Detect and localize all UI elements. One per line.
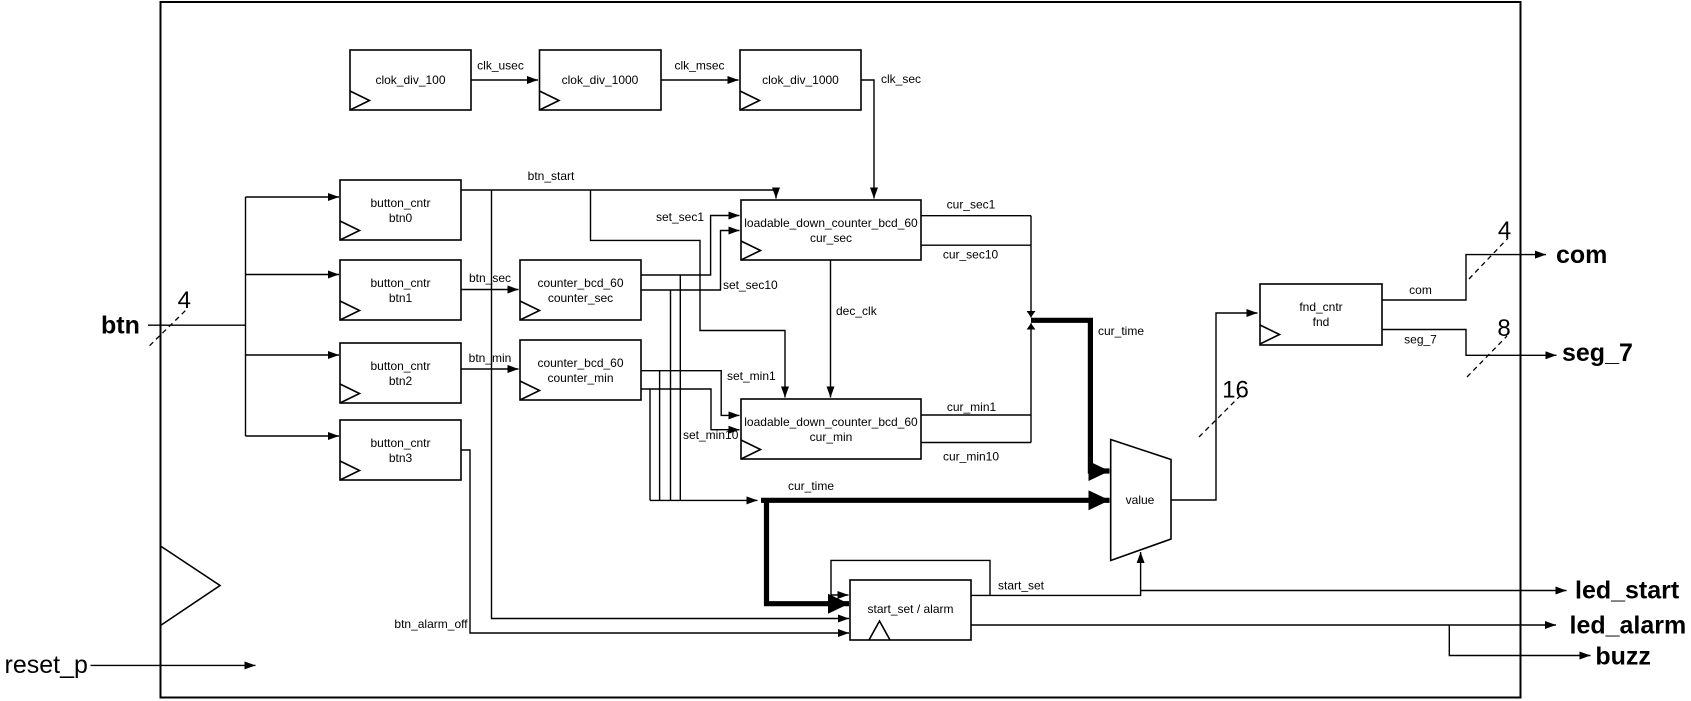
wire set_sec1 branch down	[679, 275, 681, 500]
thick wire cur_time upper	[1031, 320, 1110, 471]
svg-text:4: 4	[1498, 217, 1511, 244]
wire clk_sec	[861, 80, 874, 199]
svg-text:btn0: btn0	[389, 211, 413, 225]
block loadable_down_counter_bcd_60 cur_min	[741, 399, 921, 459]
svg-text:led_alarm: led_alarm	[1570, 612, 1687, 640]
svg-text:start_set: start_set	[998, 579, 1045, 593]
wire value to fnd_cntr	[1171, 313, 1258, 500]
label fnd_cntr fnd	[1299, 300, 1342, 329]
svg-text:btn1: btn1	[389, 291, 413, 305]
svg-text:btn_sec: btn_sec	[469, 271, 511, 285]
wire set_sec1	[641, 216, 740, 276]
svg-text:button_cntr: button_cntr	[370, 359, 430, 373]
svg-text:loadable_down_counter_bcd_60: loadable_down_counter_bcd_60	[744, 216, 918, 230]
wire dec_clk	[830, 260, 832, 398]
block counter_bcd_60 counter_sec	[520, 260, 641, 320]
wire seg_7	[1382, 330, 1557, 356]
svg-text:cur_time: cur_time	[788, 479, 834, 493]
svg-text:value: value	[1126, 493, 1155, 507]
wire cur_min1	[921, 414, 1031, 416]
svg-text:btn_start: btn_start	[528, 169, 575, 183]
label loadable_down_counter_bcd_60 cur_sec	[744, 216, 918, 245]
wire buzz	[1449, 625, 1590, 656]
wire btn to btn3	[246, 435, 340, 437]
block fnd_cntr fnd	[1260, 284, 1382, 345]
wire btn to btn0	[246, 196, 340, 198]
svg-text:btn: btn	[101, 312, 140, 340]
svg-text:buzz: buzz	[1595, 643, 1651, 671]
wire set bus to cur_time	[650, 499, 758, 501]
label loadable_down_counter_bcd_60 cur_min	[744, 415, 918, 444]
block clok_div_1000 second	[740, 50, 861, 110]
svg-text:button_cntr: button_cntr	[370, 276, 430, 290]
svg-text:reset_p: reset_p	[5, 651, 88, 679]
label button_cntr btn3	[370, 436, 430, 465]
svg-text:seg_7: seg_7	[1562, 339, 1633, 367]
svg-text:counter_bcd_60: counter_bcd_60	[537, 276, 623, 290]
svg-text:fnd: fnd	[1313, 315, 1330, 329]
bus slash com 4	[1469, 238, 1508, 279]
svg-text:btn_alarm_off: btn_alarm_off	[394, 617, 468, 631]
wire com	[1382, 255, 1546, 300]
wire btn to btn1	[246, 274, 340, 276]
block counter_bcd_60 counter_min	[520, 340, 641, 400]
label button_cntr btn0	[370, 196, 430, 225]
wire clk_usec	[471, 79, 538, 81]
wire cur_min junction vertical	[1030, 323, 1032, 442]
wire cur_min10	[921, 442, 1031, 444]
wire cur_sec10	[921, 244, 1031, 246]
mux value	[1111, 440, 1171, 561]
thick wire cur_time to start_set	[767, 500, 850, 603]
svg-text:cur_sec: cur_sec	[810, 231, 852, 245]
svg-text:seg_7: seg_7	[1404, 333, 1437, 347]
svg-text:clok_div_1000: clok_div_1000	[562, 73, 639, 87]
svg-text:clk_sec: clk_sec	[881, 72, 921, 86]
wire btn_start branch to cur_min	[591, 190, 786, 398]
label counter_bcd_60 counter_min	[537, 356, 623, 385]
svg-text:set_min10: set_min10	[683, 428, 739, 442]
block loadable_down_counter_bcd_60 cur_sec	[741, 200, 921, 260]
wire set_min10	[641, 389, 740, 430]
wire btn_start main	[461, 190, 776, 199]
svg-text:led_start: led_start	[1575, 577, 1680, 605]
svg-text:btn2: btn2	[389, 374, 413, 388]
svg-text:set_sec10: set_sec10	[723, 278, 778, 292]
svg-text:counter_sec: counter_sec	[548, 291, 613, 305]
wire btn	[148, 324, 246, 326]
wire btn bus vertical	[245, 197, 247, 436]
svg-text:cur_min: cur_min	[810, 430, 853, 444]
block button_cntr btn0	[340, 180, 461, 240]
svg-text:16: 16	[1222, 377, 1249, 404]
svg-text:8: 8	[1497, 315, 1510, 342]
svg-text:clok_div_1000: clok_div_1000	[762, 73, 839, 87]
svg-text:cur_min10: cur_min10	[943, 450, 999, 464]
bus slash btn	[150, 310, 186, 345]
svg-text:btn_min: btn_min	[469, 351, 512, 365]
svg-text:cur_sec1: cur_sec1	[947, 198, 996, 212]
svg-text:com: com	[1556, 241, 1607, 269]
block button_cntr btn1	[340, 260, 461, 320]
bus slash seg_7 8	[1467, 336, 1507, 377]
svg-text:dec_clk: dec_clk	[836, 304, 878, 318]
wire set_sec10 branch down	[670, 290, 672, 500]
thick wire cur_time lower	[761, 498, 1110, 503]
svg-text:cur_sec10: cur_sec10	[943, 248, 999, 262]
outer border	[161, 2, 1521, 698]
wire set_sec10	[641, 231, 740, 291]
svg-text:counter_bcd_60: counter_bcd_60	[537, 356, 623, 370]
svg-text:4: 4	[178, 287, 191, 314]
svg-text:fnd_cntr: fnd_cntr	[1299, 300, 1342, 314]
wire start_set output	[971, 552, 1141, 595]
wire btn_sec	[461, 289, 519, 291]
svg-text:button_cntr: button_cntr	[370, 196, 430, 210]
svg-text:cur_time: cur_time	[1098, 324, 1144, 338]
svg-text:clk_usec: clk_usec	[477, 59, 524, 73]
svg-text:clk_msec: clk_msec	[674, 59, 724, 73]
wire led_start	[1141, 590, 1567, 592]
block clok_div_1000 first	[540, 50, 662, 110]
wire btn_min	[461, 368, 519, 370]
block clok_div_100	[350, 50, 471, 110]
block button_cntr btn2	[340, 343, 461, 403]
block button_cntr btn3	[340, 420, 461, 480]
svg-text:button_cntr: button_cntr	[370, 436, 430, 450]
block start_set / alarm	[850, 580, 971, 640]
bus slash 16	[1199, 393, 1243, 437]
svg-text:cur_min1: cur_min1	[947, 400, 997, 414]
wire btn_alarm_off from btn3	[461, 450, 849, 633]
wire btn_start branch to start_set	[492, 190, 850, 619]
wire cur_sec1	[921, 215, 1031, 217]
label button_cntr btn1	[370, 276, 430, 305]
svg-text:loadable_down_counter_bcd_60: loadable_down_counter_bcd_60	[744, 415, 918, 429]
wire start_set feedback loop	[831, 560, 990, 595]
svg-text:com: com	[1409, 283, 1432, 297]
wire clk_msec	[661, 79, 739, 81]
wire set_min1	[641, 371, 740, 416]
label button_cntr btn2	[370, 359, 430, 388]
wire cur_sec junction vertical	[1030, 216, 1032, 318]
wire led_alarm	[971, 624, 1556, 626]
label counter_bcd_60 counter_sec	[537, 276, 623, 305]
svg-text:counter_min: counter_min	[547, 371, 613, 385]
svg-text:btn3: btn3	[389, 451, 413, 465]
wire set_min1 branch down	[659, 371, 661, 501]
svg-text:set_min1: set_min1	[727, 369, 776, 383]
wire reset_p	[91, 664, 256, 666]
wire set_min10 branch down	[649, 389, 651, 500]
svg-text:start_set / alarm: start_set / alarm	[867, 602, 953, 616]
clock chevron on left border	[161, 546, 221, 626]
svg-text:clok_div_100: clok_div_100	[375, 73, 445, 87]
svg-text:set_sec1: set_sec1	[656, 210, 704, 224]
wire btn to btn2	[246, 354, 340, 356]
